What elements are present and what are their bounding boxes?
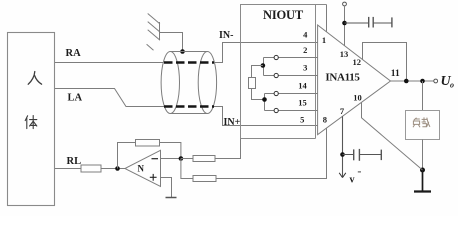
- terminal V+ (top): [343, 2, 347, 6]
- ground (output): [422, 170, 424, 191]
- body box (人体): [8, 33, 55, 206]
- arrowhead V-: [339, 173, 346, 178]
- svg-text:IN+: IN+: [224, 117, 241, 128]
- svg-text:15: 15: [298, 98, 307, 108]
- switch contact pin 3: [274, 73, 278, 77]
- node at op-amp N output: [115, 166, 120, 171]
- svg-text:N: N: [138, 164, 145, 174]
- wire RA exit to IN-: [214, 43, 318, 63]
- wire pin 10 to ground node: [362, 103, 423, 170]
- node output load: [420, 79, 425, 84]
- dashed LA conductor in shield: [164, 105, 214, 108]
- 人 character: [28, 72, 41, 85]
- load box (负载): [406, 111, 440, 140]
- resistor lower averaging: [193, 176, 216, 182]
- svg-text:v: v: [350, 175, 355, 186]
- wire node down to lower resistor: [181, 159, 193, 179]
- wire RA (body to cable): [55, 62, 163, 64]
- svg-text:14: 14: [298, 81, 307, 91]
- svg-text:o: o: [450, 81, 454, 90]
- node ground: [420, 168, 425, 173]
- svg-text:INA115: INA115: [325, 72, 360, 84]
- svg-text:13: 13: [340, 49, 349, 59]
- wire pin 2 line: [264, 57, 318, 59]
- svg-text:12: 12: [353, 57, 362, 67]
- resistor gain (vertical): [249, 78, 256, 89]
- 载 character: [422, 117, 430, 127]
- wire feedback right leg: [160, 143, 181, 159]
- svg-text:LA: LA: [68, 93, 83, 104]
- capacitor bottom (V- decoupling): [343, 149, 382, 161]
- wire upper resistor to IN+ line: [215, 126, 241, 159]
- node shield on cable: [180, 49, 185, 54]
- terminal Uo: [434, 79, 438, 83]
- wire upper node to gain resistor: [252, 66, 263, 78]
- node N inverting input: [179, 156, 184, 161]
- minus sign of N: [152, 158, 159, 160]
- wire shield ground to cable: [160, 33, 183, 52]
- svg-text:5: 5: [300, 115, 304, 125]
- svg-text:11: 11: [391, 69, 400, 79]
- wire output to load: [422, 81, 424, 111]
- wire LA exit to IN+: [214, 107, 318, 126]
- NIOUT box: [241, 5, 327, 139]
- node V+ rail: [342, 21, 347, 26]
- svg-text:NIOUT: NIOUT: [263, 8, 304, 22]
- chassis ground (shield): [147, 14, 160, 51]
- wire gain resistor to lower node: [252, 89, 265, 100]
- wire upper branch vertical: [263, 58, 265, 76]
- switch contact pin 14: [274, 91, 278, 95]
- node pin 7 rail: [340, 152, 345, 157]
- svg-text:1: 1: [322, 35, 326, 45]
- svg-text:3: 3: [303, 63, 307, 73]
- svg-text:8: 8: [323, 114, 327, 124]
- 负 character: [413, 118, 420, 127]
- wire N plus input to ground: [161, 178, 172, 198]
- switch contact pin 15: [274, 108, 278, 112]
- dashed RA conductor in shield: [164, 61, 214, 64]
- wire RL: [55, 168, 81, 170]
- wire pin 7 to V-: [342, 116, 344, 176]
- svg-text:IN-: IN-: [219, 30, 233, 41]
- wire lower resistor to amp pin 8: [216, 129, 327, 179]
- svg-text:2: 2: [303, 45, 307, 55]
- wire pin 1 from box top to amp: [326, 5, 328, 32]
- op-amp N triangle: [125, 150, 161, 186]
- resistor feedback of N: [136, 140, 160, 147]
- node output sense: [404, 79, 409, 84]
- wire N inverting input: [161, 158, 181, 160]
- wire pin 15 line: [265, 110, 318, 112]
- resistor upper averaging: [193, 156, 215, 162]
- wire lower branch vertical: [264, 94, 266, 111]
- wire load to ground: [422, 140, 424, 171]
- svg-text:RL: RL: [67, 156, 82, 167]
- node lower branch: [262, 97, 267, 102]
- wire output pin 11: [391, 80, 434, 82]
- wire pin 14 line: [265, 93, 318, 95]
- wire feedback left leg: [118, 143, 136, 169]
- svg-text:10: 10: [353, 92, 362, 102]
- wire LA (body to cable, with jog): [55, 89, 164, 107]
- shielded cable cylinder: [161, 52, 216, 114]
- svg-text:RA: RA: [66, 48, 82, 59]
- resistor R-RL: [81, 165, 101, 172]
- op-amp U1 INA115 triangle: [318, 25, 391, 135]
- capacitor top (decoupling): [345, 17, 392, 28]
- wire pin 13 to V+ terminal: [344, 6, 346, 46]
- ground bar under N: [166, 197, 177, 199]
- svg-text:4: 4: [303, 30, 308, 40]
- wire resistor to node: [101, 168, 125, 170]
- plus sign of N: [150, 174, 157, 181]
- wire pin 3 line: [264, 75, 318, 77]
- switch contact pin 2: [274, 55, 278, 59]
- wire pin 12 sense to output: [363, 43, 407, 82]
- node upper branch: [261, 63, 266, 68]
- wire node to upper resistor: [181, 158, 193, 160]
- 体 character: [25, 116, 37, 129]
